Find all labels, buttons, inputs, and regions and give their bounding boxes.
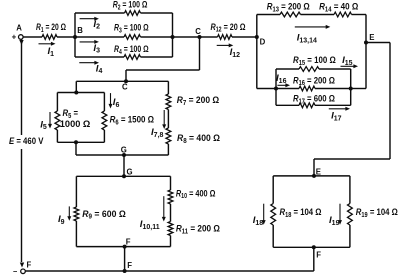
label R11 = 200 ohm: [176, 224, 220, 236]
box2 left upper: [75, 176, 77, 207]
battery source E terminal A (+): [12, 33, 24, 42]
wire source down upper: [21, 39, 23, 135]
label R17 = 600 ohm: [293, 94, 335, 106]
svg-text:F: F: [127, 261, 132, 270]
wire upper rail: [76, 80, 168, 82]
resistor R18: [271, 204, 276, 226]
box1 left upper: [56, 93, 58, 112]
node C label: [195, 27, 201, 36]
svg-text:+: +: [12, 33, 17, 42]
wire branch top: [167, 81, 169, 94]
wire B to R3: [75, 36, 124, 38]
wire box1 to rail G: [75, 142, 77, 155]
resistor R17: [299, 103, 315, 108]
wire R10 to R11: [170, 204, 172, 222]
resistor R10: [168, 190, 173, 204]
wire R4 branch right: [141, 56, 173, 58]
label R3 = 100 ohm: [114, 23, 149, 35]
wire corner down to E: [365, 15, 367, 43]
resistor R3: [124, 35, 141, 40]
wire R8 down: [167, 144, 169, 155]
label I18: [253, 215, 264, 227]
label R1 = 20 ohm: [36, 22, 66, 34]
svg-text:E: E: [316, 168, 321, 177]
box1 left lower: [56, 130, 58, 142]
label R9 = 600 ohm: [82, 209, 126, 221]
label I6: [113, 97, 120, 109]
box2 bottom edge: [76, 246, 170, 248]
svg-text:G: G: [127, 168, 133, 177]
wire right edge down: [389, 43, 391, 160]
node F rail: [123, 269, 127, 273]
node F box4 label: [316, 251, 321, 260]
current arrow I1: [39, 42, 56, 46]
resistor R16: [299, 86, 315, 91]
node C: [198, 35, 202, 39]
node B: [73, 35, 77, 39]
box4 bottom edge: [273, 246, 350, 248]
node F terminal label: [27, 261, 32, 270]
box4 right upper: [349, 176, 351, 204]
current arrow I6: [109, 93, 113, 108]
svg-text:E: E: [369, 33, 374, 42]
node G lower label: [127, 168, 133, 177]
node F box2 label: [126, 237, 131, 246]
node F box4: [312, 245, 316, 249]
label R5 =: [63, 108, 79, 120]
box1 top edge: [57, 92, 104, 94]
node F rail label: [127, 261, 132, 270]
current arrow I18: [262, 204, 266, 225]
wire D to box3: [257, 88, 276, 90]
svg-text:R1 = 20 Ω: R1 = 20 Ω: [36, 22, 66, 34]
current arrow I7,8: [162, 110, 166, 129]
svg-text:F: F: [27, 261, 32, 270]
wire E vertical: [365, 43, 367, 89]
wire B vertical: [74, 13, 76, 57]
label R19 = 104 ohm: [356, 207, 398, 219]
node E box4: [312, 174, 316, 178]
label I5: [40, 119, 47, 131]
box2 right upper: [170, 176, 172, 190]
battery source E terminal F (-): [13, 267, 25, 275]
wire rail G: [76, 154, 168, 156]
label R10 = 400 ohm: [176, 188, 216, 200]
wire R15 left: [276, 68, 299, 70]
label E = 460 V: [9, 136, 44, 147]
current arrow I13,14: [295, 25, 331, 29]
current arrow I9: [67, 206, 71, 220]
wire E to right edge: [366, 42, 390, 44]
label I10,11: [140, 219, 160, 231]
label R6 = 1500 ohm: [110, 115, 155, 127]
junction of R2 R3 R4: [171, 35, 175, 39]
wire D up: [256, 15, 258, 38]
wire D down: [256, 37, 258, 89]
wire across to E2: [314, 158, 390, 160]
wire C down: [199, 37, 201, 70]
resistor R4: [124, 55, 141, 60]
label R12 = 20 ohm: [211, 22, 246, 34]
svg-text:B: B: [77, 26, 83, 35]
box2 right lower: [170, 236, 172, 247]
current arrowhead bottom: [20, 263, 24, 268]
node E box4 label: [316, 168, 321, 177]
label I19: [329, 215, 340, 227]
box4 left lower: [272, 225, 274, 247]
node C lower label: [122, 82, 128, 91]
label I4: [96, 63, 103, 75]
svg-text:C: C: [195, 27, 201, 36]
resistor R1: [42, 35, 57, 40]
junction box3 right: [349, 87, 353, 91]
box2 top edge: [76, 175, 170, 177]
label R16 = 200 ohm: [293, 75, 335, 87]
resistor R19: [348, 204, 353, 226]
resistor R6: [102, 111, 107, 130]
box4 left upper: [272, 176, 274, 204]
label I17: [331, 111, 342, 123]
junction box3 left: [274, 87, 278, 91]
node A label: [16, 24, 22, 33]
wire rail down to box1: [75, 81, 77, 92]
label R7 = 200 ohm: [177, 95, 220, 107]
wire G down: [123, 155, 125, 176]
svg-text:−: −: [13, 267, 18, 275]
box4 right lower: [349, 225, 351, 247]
wire R13 to R14: [301, 14, 335, 16]
wire C to R12: [200, 36, 218, 38]
svg-text:1000 Ω: 1000 Ω: [60, 119, 91, 130]
label I7,8: [151, 127, 164, 139]
label R4 = 100 ohm: [114, 44, 149, 56]
resistor R5: [55, 111, 60, 130]
node E: [364, 41, 368, 45]
junction box1 bottom: [74, 140, 78, 144]
wire D to R13: [257, 14, 280, 16]
wire R14 to corner: [352, 14, 367, 16]
box3 left edge: [275, 69, 277, 105]
current arrow I10,11: [162, 196, 166, 221]
current arrow I4: [79, 61, 99, 65]
current arrow I19: [338, 204, 342, 225]
current arrow I12: [217, 43, 234, 47]
wire R1 to node B: [57, 36, 75, 38]
label R13 = 200 ohm: [267, 2, 310, 14]
label R8 = 400 ohm: [177, 133, 220, 145]
resistor R13: [280, 12, 301, 17]
node G lower: [122, 174, 126, 178]
wire source down lower: [21, 149, 23, 262]
wire R15 right: [319, 68, 351, 70]
svg-text:F: F: [316, 251, 321, 260]
current arrow I15: [341, 64, 359, 68]
label I3: [93, 43, 100, 55]
wire A to R1: [23, 36, 42, 38]
wire R16 left: [276, 88, 299, 90]
label 1000 ohm: [60, 119, 91, 130]
resistor R12: [218, 35, 233, 40]
label I1: [48, 46, 55, 58]
current arrow I2: [80, 17, 99, 21]
resistor R8: [166, 128, 171, 144]
resistor R2: [125, 11, 141, 16]
resistor R7: [166, 94, 171, 110]
box1 right upper: [103, 93, 105, 112]
current arrowhead top: [19, 40, 23, 45]
current arrow I3: [80, 40, 99, 44]
label I12: [230, 47, 241, 59]
wire down to box4: [313, 159, 315, 176]
wire R17 right: [315, 104, 351, 106]
current arrow I16: [277, 83, 290, 87]
svg-text:E = 460 V: E = 460 V: [9, 136, 44, 147]
svg-text:D: D: [260, 37, 266, 46]
wire across at y70: [126, 69, 200, 71]
resistor R9: [74, 207, 79, 221]
node G label: [121, 146, 127, 155]
current arrow I5: [48, 112, 52, 129]
svg-text:F: F: [126, 237, 131, 246]
node E label: [369, 33, 374, 42]
label I9: [58, 214, 65, 226]
junction box1 top: [74, 91, 78, 95]
box1 right lower: [103, 130, 105, 142]
label R2 = 100 ohm: [113, 0, 148, 11]
node B label: [77, 26, 83, 35]
node F box2: [123, 245, 127, 249]
wire down to node C2: [125, 70, 127, 81]
node D label: [260, 37, 266, 46]
current arrow I17: [329, 107, 350, 111]
wire R16 right: [315, 88, 351, 90]
label R15 = 100 ohm: [293, 55, 336, 67]
node C junction lower: [124, 79, 128, 83]
box2 left lower: [75, 221, 77, 247]
wire rejoin vertical: [172, 13, 174, 57]
node D: [255, 35, 259, 39]
node G: [122, 153, 126, 157]
svg-text:G: G: [121, 146, 127, 155]
wire R4 branch left: [75, 56, 124, 58]
label I15: [342, 55, 353, 67]
label R14 = 40 ohm: [319, 2, 358, 14]
box3 right edge: [350, 69, 352, 105]
wire box3 to E vertical: [351, 88, 366, 90]
svg-text:A: A: [16, 24, 22, 33]
box4 top edge: [273, 175, 350, 177]
wire F down: [124, 247, 126, 271]
wire R3 to junction: [141, 36, 200, 38]
wire R2 branch right: [141, 12, 173, 14]
label I16: [276, 73, 287, 85]
label I13,14: [297, 33, 317, 45]
label I2: [93, 19, 100, 31]
wire box4 F down: [313, 247, 315, 271]
resistor R15: [299, 67, 319, 72]
wire bottom rail: [25, 270, 314, 272]
wire R17 left: [276, 104, 299, 106]
wire R2 branch left: [75, 12, 125, 14]
resistor R11: [168, 222, 173, 236]
resistor R14: [334, 12, 352, 17]
wire R7 to R8: [167, 110, 169, 129]
wire R12 to node D: [232, 36, 257, 38]
box1 bottom edge: [57, 141, 104, 143]
label R18 = 104 ohm: [280, 207, 322, 219]
svg-text:C: C: [122, 82, 128, 91]
